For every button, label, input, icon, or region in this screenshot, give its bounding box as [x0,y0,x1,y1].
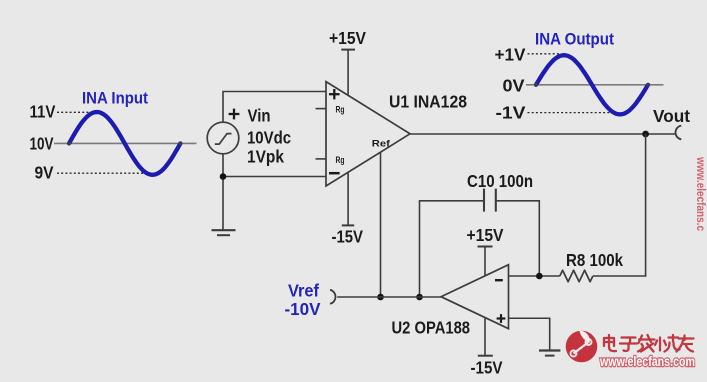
svg-text:Rg: Rg [336,104,345,114]
junction Ref/Vref [377,294,384,301]
wire +15V to U1 [347,50,349,96]
wire R8 to Vout vertical [593,134,646,276]
wire source bottom to ground [222,154,224,230]
node INA Input sine wave [67,112,182,175]
pin + of U1 [329,89,340,99]
component label U1 INA128 [389,92,467,112]
power -15V terminal of U1 [332,225,364,246]
wire Vref port to U2 [337,296,441,298]
wire input waveform axis [54,142,197,144]
wire output waveform axis [526,84,664,86]
svg-text:1Vpk: 1Vpk [247,146,284,166]
svg-text:+15V: +15V [467,225,504,245]
wire dotted leader 11V [57,111,93,113]
wire feedback loop left vertical and to C10 [420,201,485,297]
watermark brand CJK strokes [604,335,694,352]
wire C10 right side down to inverting node [496,201,540,276]
svg-text:U2 OPA188: U2 OPA188 [392,318,471,338]
svg-text:U1 INA128: U1 INA128 [389,92,467,112]
node label 10V [30,133,54,153]
svg-text:Vout: Vout [653,106,690,126]
svg-text:9V: 9V [35,163,54,183]
watermark url text [599,354,695,369]
watermark vertical www.elecfans.c [694,156,707,231]
node label +1V [495,45,526,65]
node INA Output sine wave [534,55,650,114]
wire U1 to -15V [347,172,349,225]
wire dotted leader 9V [57,172,150,174]
node label Vout [653,106,690,126]
node label Vref [288,280,319,300]
ground at U2 + input [539,351,560,356]
wire U2 to -15V [484,317,486,355]
component label R8 100k [566,250,623,270]
svg-text:+1V: +1V [495,45,526,65]
resistor R8 zigzag [560,270,593,281]
wire dotted leader +1V [528,53,562,55]
wire dotted leader -1V [528,112,618,114]
node label 9V [35,163,54,183]
value label 1Vpk [247,146,284,166]
pin - of U2 [495,279,503,281]
pin - of U1 [329,172,340,175]
svg-text:Vref: Vref [288,280,319,300]
svg-text:11V: 11V [30,102,56,122]
wire U2 inverting input to R8 [509,275,560,277]
svg-text:Vin: Vin [248,105,271,125]
svg-text:10V: 10V [30,133,54,153]
svg-text:www.elecfans.com: www.elecfans.com [599,354,695,369]
node INA Output waveform annotation label [535,31,614,49]
svg-text:-15V: -15V [332,226,364,246]
pin label Rg bottom [336,155,345,165]
pin label Rg top [336,104,345,114]
junction inverting node [536,273,543,280]
power +15V terminal of U1 [329,28,366,50]
svg-text:+15V: +15V [329,28,366,48]
svg-text:0V: 0V [503,75,525,95]
pin stub Rg top [316,108,327,110]
wire source top to INA + input [223,92,326,123]
node label -10V [285,299,321,319]
wire Ref pin of U1 down to Vref line [380,152,382,297]
node INA Input waveform annotation label [82,90,148,108]
pin stub Rg bottom [316,158,327,160]
component label U2 OPA188 [392,318,471,338]
node label -1V [496,102,526,122]
watermark logo circle [566,331,598,363]
port Vref arc [330,290,336,304]
node label 0V [503,75,525,95]
voltage source plus polarity mark [229,109,240,120]
capacitor C10 plates [484,189,496,212]
pin label Ref [372,138,391,149]
voltage source V1 circle [207,122,239,154]
value label Vin [248,105,271,125]
svg-text:Ref: Ref [372,138,391,149]
svg-text:-15V: -15V [471,357,503,377]
junction feedback left on Vref line [416,294,423,301]
svg-text:C10 100n: C10 100n [467,171,533,191]
op-amp U1 INA128 triangle [326,82,410,186]
ground under source [212,230,236,235]
port Vout arc [675,126,681,140]
svg-text:10Vdc: 10Vdc [247,127,291,147]
power +15V terminal of U2 [467,225,504,247]
pin + of U2 [497,314,506,323]
op-amp U2 OPA188 triangle [441,265,509,329]
svg-text:INA Input: INA Input [82,90,148,108]
svg-text:INA Output: INA Output [535,31,614,49]
junction at source bottom [220,173,227,180]
svg-text:www.elecfans.c: www.elecfans.c [694,156,707,231]
wire source bottom branch to INA - input [223,176,326,178]
junction at Vout [642,131,649,138]
node label 11V [30,102,56,122]
svg-text:R8 100k: R8 100k [566,250,623,270]
wire U2 non-inverting input to ground [509,318,550,350]
svg-text:-1V: -1V [496,102,526,122]
value label 10Vdc [247,127,291,147]
wire +15V to U2 [484,247,486,277]
svg-text:Rg: Rg [336,155,345,165]
wire U1 output to Vout port [410,133,675,135]
power -15V terminal of U2 [471,356,503,378]
svg-text:-10V: -10V [285,299,321,319]
capacitor C10 label [467,171,533,191]
